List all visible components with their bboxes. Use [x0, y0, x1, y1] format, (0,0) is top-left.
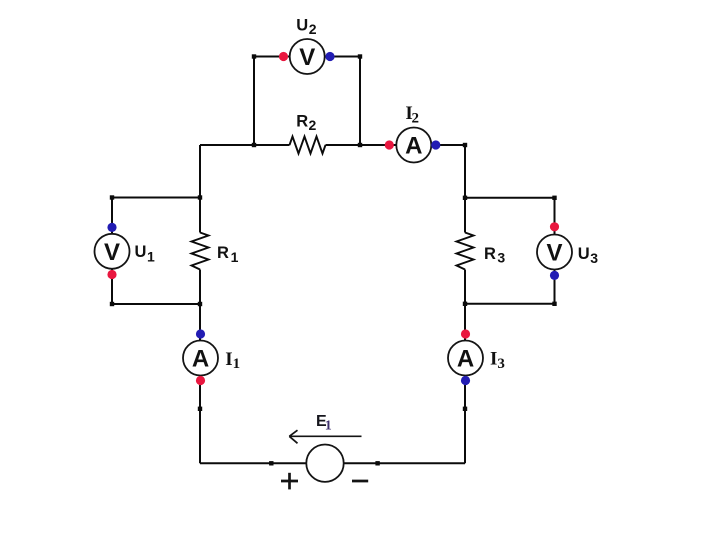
label I2	[405, 103, 419, 126]
wire: right branch vertical lower	[464, 270, 466, 464]
svg-text:1: 1	[233, 356, 241, 372]
svg-text:1: 1	[325, 419, 332, 434]
resistor R1 zigzag	[192, 233, 209, 270]
voltmeter U1	[95, 223, 130, 279]
voltmeter U3	[537, 222, 572, 280]
wire: left branch vertical lower	[199, 270, 201, 464]
wire: top bus left segment	[200, 144, 290, 146]
label R2	[296, 113, 316, 134]
svg-text:V: V	[299, 44, 315, 71]
svg-text:U: U	[578, 245, 590, 263]
node: U3 loop bottom-left junction	[463, 302, 467, 306]
node: U3 loop top-right	[552, 196, 556, 200]
label I3	[490, 349, 505, 372]
wire: U3 loop top horizontal	[465, 197, 555, 199]
wire: top bus right segment	[326, 144, 466, 146]
node: U1 loop bottom-right junction	[198, 302, 202, 306]
ammeter I1	[183, 329, 218, 385]
ammeter I2	[385, 128, 441, 163]
svg-text:A: A	[405, 133, 422, 160]
svg-text:I: I	[490, 349, 497, 370]
wire: U2 loop left vertical	[253, 57, 255, 146]
svg-text:2: 2	[309, 21, 317, 37]
resistor R3 zigzag	[457, 233, 474, 270]
label E1	[316, 413, 332, 433]
node: right branch terminal marker	[463, 407, 467, 411]
svg-text:V: V	[546, 240, 562, 267]
label U2	[296, 17, 317, 38]
svg-text:3: 3	[497, 356, 505, 372]
wire: U2 loop right vertical	[359, 57, 361, 146]
minus sign at source	[352, 480, 368, 483]
svg-text:3: 3	[590, 250, 598, 266]
label R1	[217, 244, 239, 265]
label U1	[135, 243, 156, 265]
plus sign at source	[281, 473, 298, 490]
arrow above source E1	[289, 430, 361, 443]
node: U3 loop bottom-right	[552, 302, 556, 306]
svg-text:1: 1	[231, 249, 239, 265]
source E1 circle	[306, 445, 343, 482]
ammeter I3	[448, 329, 483, 385]
svg-text:2: 2	[309, 117, 317, 133]
wire: U3 loop bottom horizontal	[465, 303, 555, 305]
node: bottom bus right of source	[375, 461, 379, 465]
svg-text:V: V	[104, 239, 120, 266]
svg-text:2: 2	[412, 111, 420, 127]
node: junction bus-left of R2	[252, 143, 256, 147]
node: U1 loop top-left	[110, 195, 114, 199]
voltmeter U2	[279, 39, 335, 74]
wire: U3 loop right vertical	[554, 198, 556, 304]
wire: bottom bus	[200, 462, 465, 464]
wire: right branch vertical upper	[464, 145, 466, 233]
wire: U1 loop bottom horizontal	[112, 303, 200, 305]
node: junction bus-right of R2	[358, 143, 362, 147]
svg-text:U: U	[135, 243, 147, 261]
node: U2 loop top-left corner	[252, 54, 256, 58]
wire: U1 loop left vertical	[111, 198, 113, 305]
svg-text:3: 3	[497, 250, 505, 266]
wire: U1 loop top horizontal	[112, 197, 200, 199]
wire: U2 loop top horizontal	[254, 56, 360, 58]
svg-text:U: U	[296, 17, 308, 35]
node: U1 loop bottom-left	[110, 302, 114, 306]
svg-text:R: R	[484, 245, 496, 263]
wire: left branch vertical upper	[199, 145, 201, 233]
node: U1 loop top-right junction	[198, 195, 202, 199]
svg-text:A: A	[457, 346, 474, 373]
label I1	[225, 349, 240, 372]
svg-text:R: R	[217, 244, 229, 262]
node: left branch terminal marker	[198, 407, 202, 411]
node: bus right corner	[463, 143, 467, 147]
svg-text:I: I	[225, 349, 232, 370]
node: bottom bus left of source	[269, 461, 273, 465]
resistor R2 zigzag	[290, 137, 326, 154]
node: U3 loop top-left junction	[463, 196, 467, 200]
svg-text:R: R	[296, 113, 308, 131]
svg-text:A: A	[192, 346, 209, 373]
label U3	[578, 245, 599, 266]
label R3	[484, 245, 505, 266]
node: U2 loop top-right corner	[358, 54, 362, 58]
svg-text:1: 1	[147, 249, 155, 265]
